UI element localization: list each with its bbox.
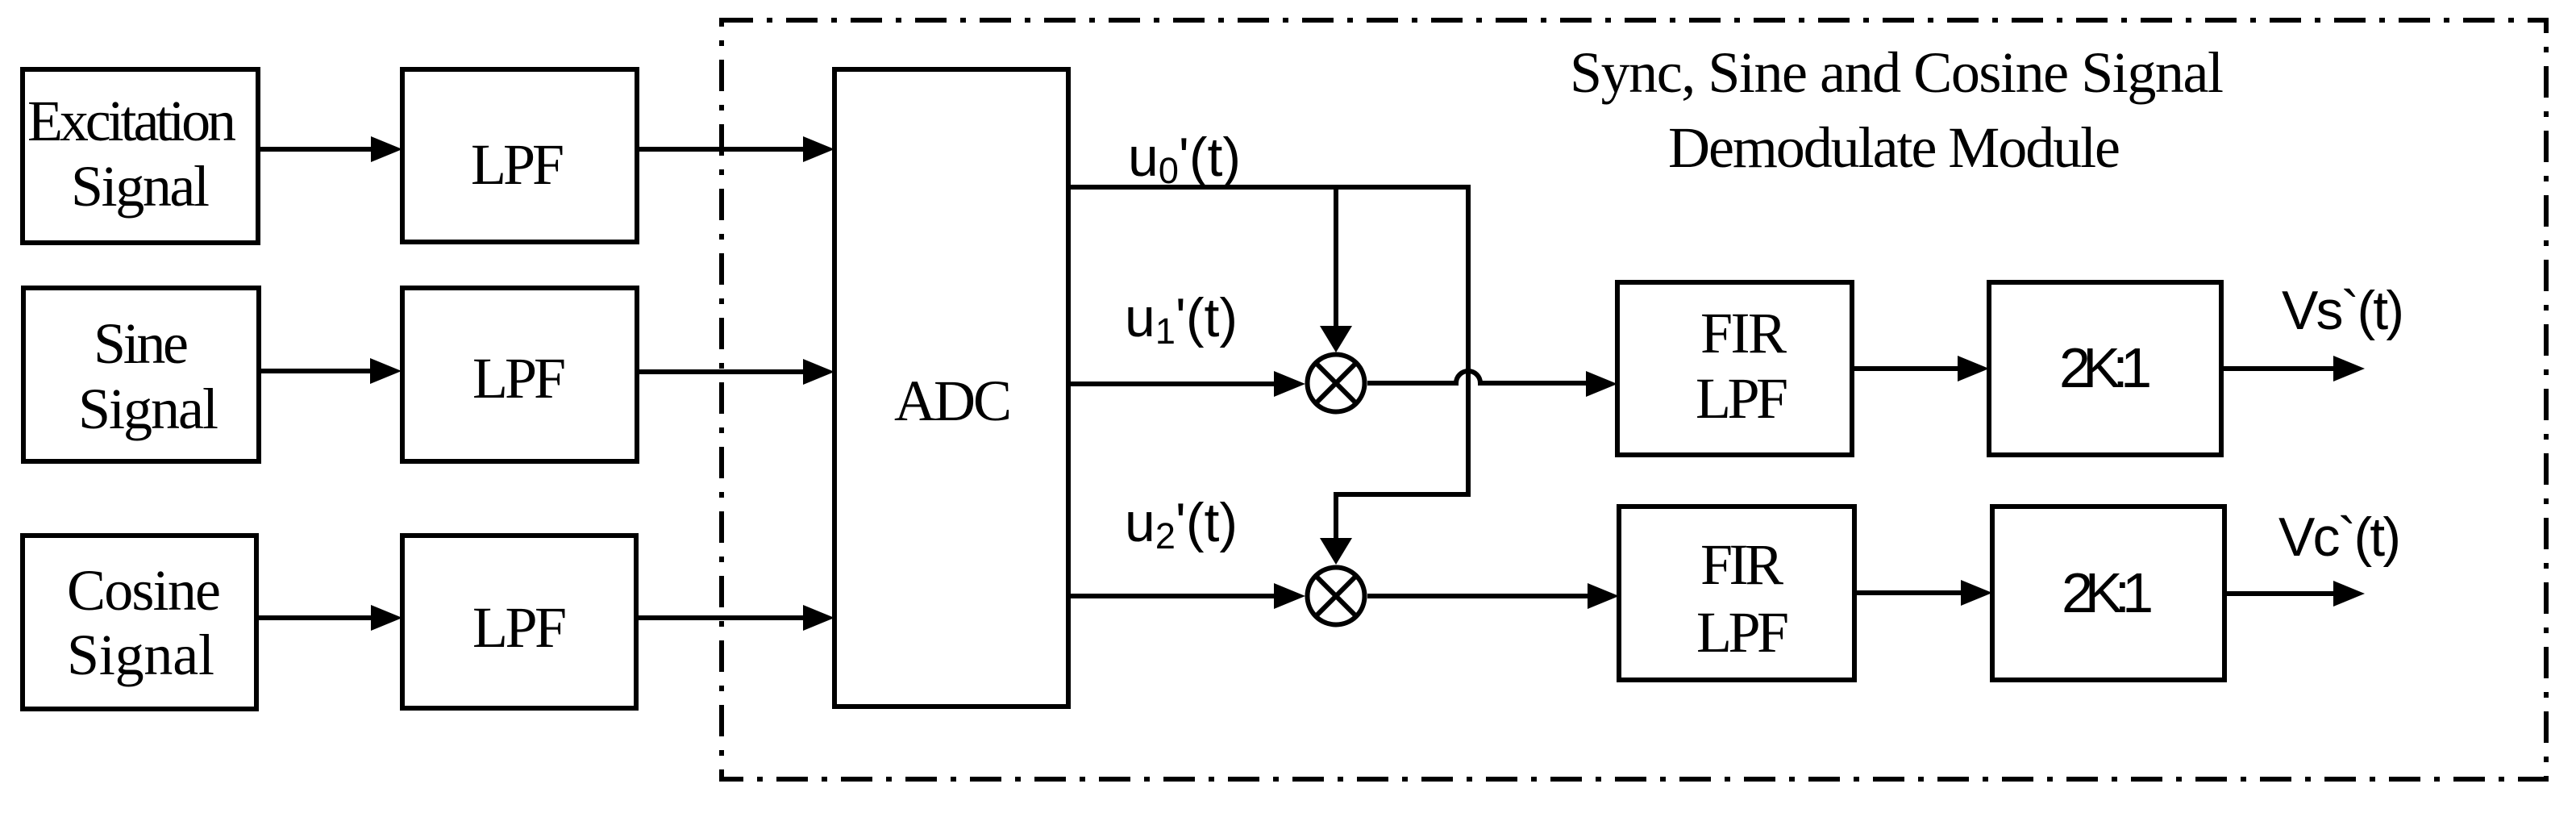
svg-text:Cosine: Cosine <box>67 558 221 623</box>
svg-text:LPF: LPF <box>471 132 564 197</box>
svg-text:LPF: LPF <box>472 595 567 660</box>
svg-text:2K:1: 2K:1 <box>2062 561 2154 624</box>
svg-text:LPF: LPF <box>1696 600 1789 665</box>
svg-text:ADC: ADC <box>894 369 1012 433</box>
svg-text:Signal: Signal <box>67 623 214 687</box>
svg-text:Sine: Sine <box>94 311 189 376</box>
svg-text:LPF: LPF <box>1696 366 1788 431</box>
svg-text:Demodulate Module: Demodulate Module <box>1668 115 2120 180</box>
svg-text:2K:1: 2K:1 <box>2059 336 2152 399</box>
svg-text:Excitation: Excitation <box>27 89 236 153</box>
svg-text:Vs`(t): Vs`(t) <box>2282 280 2404 341</box>
svg-text:FIR: FIR <box>1700 532 1783 597</box>
svg-text:Signal: Signal <box>71 154 210 219</box>
svg-text:u2'(t): u2'(t) <box>1125 492 1238 557</box>
svg-text:LPF: LPF <box>472 346 566 411</box>
svg-text:FIR: FIR <box>1700 301 1787 365</box>
svg-text:Sync, Sine and Cosine Signal: Sync, Sine and Cosine Signal <box>1570 40 2224 105</box>
svg-text:Signal: Signal <box>78 377 218 441</box>
svg-text:Vc`(t): Vc`(t) <box>2278 507 2401 568</box>
svg-text:u1'(t): u1'(t) <box>1125 287 1238 352</box>
svg-text:u0'(t): u0'(t) <box>1128 127 1241 191</box>
